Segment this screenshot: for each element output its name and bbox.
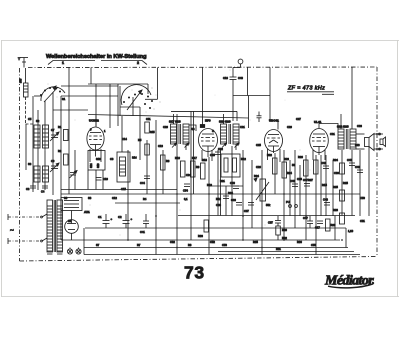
tube V3 UBC41	[265, 119, 283, 163]
resistor R18	[201, 158, 208, 179]
resistor R29	[326, 219, 336, 231]
antenna terminal T	[18, 57, 28, 68]
svg-text:S15: S15	[150, 130, 155, 134]
tube V1 UCH42	[87, 119, 104, 163]
svg-text:S1: S1	[62, 97, 66, 101]
cap C10	[96, 177, 109, 181]
diode load box R21	[220, 154, 240, 183]
cap C44	[140, 176, 150, 185]
resistor R5	[138, 122, 149, 155]
svg-text:C33: C33	[231, 198, 236, 202]
resistor R33	[198, 220, 209, 238]
svg-text:C48: C48	[347, 158, 352, 162]
terminal post C46	[223, 59, 243, 121]
cap C49	[355, 165, 363, 173]
coil box S14	[117, 152, 137, 182]
cap C47	[303, 216, 313, 228]
svg-text:PU: PU	[286, 200, 290, 204]
svg-text:S10: S10	[96, 157, 101, 161]
band switch S-I	[34, 86, 65, 102]
svg-text:Wellenbereichschalter in KW-St: Wellenbereichschalter in KW-Stellung	[46, 54, 147, 60]
volume potentiometer R34	[254, 174, 271, 207]
svg-text:R34: R34	[254, 174, 259, 178]
tube V2 EF41	[199, 119, 218, 162]
power transformer	[47, 200, 63, 254]
trimmer C5	[50, 128, 59, 141]
svg-text:C25: C25	[256, 143, 261, 147]
svg-text:R26: R26	[298, 155, 303, 159]
svg-text:S7: S7	[96, 243, 100, 247]
svg-text:C31: C31	[330, 132, 335, 136]
svg-text:S17 S18: S17 S18	[169, 120, 181, 124]
band switch S-II	[121, 85, 152, 110]
svg-text:C54: C54	[183, 189, 188, 193]
svg-text:C49: C49	[355, 165, 360, 169]
svg-text:C33: C33	[357, 124, 362, 128]
cap C45	[210, 152, 221, 157]
svg-text:C5: C5	[28, 117, 32, 121]
heater tie wires	[84, 194, 369, 255]
page scan edges	[1, 41, 399, 297]
resistor R22	[267, 153, 277, 174]
scan speckles	[45, 70, 361, 236]
main vertical feed wires from top border	[69, 67, 352, 240]
tone cap C57 stack	[268, 216, 287, 240]
svg-text:C14: C14	[122, 137, 127, 141]
svg-text:C46: C46	[230, 181, 235, 185]
svg-text:C53: C53	[222, 243, 227, 247]
svg-text:C3: C3	[26, 187, 30, 191]
resistor R17	[191, 156, 198, 177]
osc coil L4	[43, 166, 49, 182]
svg-text:73: 73	[184, 263, 205, 283]
svg-text:C16: C16	[223, 76, 228, 80]
cap C17	[315, 221, 323, 230]
IF transformer T1	[169, 120, 189, 148]
svg-text:C11: C11	[146, 117, 151, 121]
cap C42	[321, 161, 329, 169]
grid bus wires upper-left	[53, 84, 148, 160]
svg-text:R4: R4	[143, 197, 147, 201]
screen rail y=96 right half	[233, 95, 270, 97]
svg-text:C50: C50	[360, 196, 365, 200]
svg-text:C24: C24	[186, 173, 191, 177]
svg-text:R21: R21	[220, 179, 225, 183]
cap C3	[26, 182, 36, 192]
svg-text:R18: R18	[202, 158, 207, 162]
svg-text:C15: C15	[121, 187, 126, 191]
svg-text:R19: R19	[216, 197, 221, 201]
cap C48	[347, 158, 355, 166]
svg-text:R15: R15	[322, 183, 327, 187]
grid leads to tubes	[96, 114, 341, 150]
svg-text:UCH42: UCH42	[89, 119, 99, 123]
label: ZF = 473 kHz	[287, 86, 334, 95]
svg-text:S5: S5	[68, 219, 72, 223]
svg-text:EF9: EF9	[205, 119, 211, 123]
svg-text:R25: R25	[343, 181, 348, 185]
cap C46b	[230, 181, 239, 189]
svg-text:C38: C38	[216, 203, 221, 207]
svg-text:R14: R14	[287, 171, 292, 175]
svg-text:S10: S10	[96, 163, 100, 168]
svg-text:R28: R28	[333, 208, 338, 212]
svg-text:S14: S14	[132, 156, 137, 160]
svg-text:50k: 50k	[266, 203, 271, 207]
svg-text:C8: C8	[110, 157, 114, 161]
resistor chain R24	[333, 158, 345, 174]
svg-text:ZF = 473 kHz: ZF = 473 kHz	[287, 86, 325, 92]
extra value labels	[68, 125, 365, 251]
svg-text:R6: R6	[166, 159, 170, 163]
wire antenna to switch	[26, 97, 35, 124]
svg-text:C58: C58	[311, 243, 316, 247]
svg-text:R24: R24	[333, 158, 338, 162]
resistor R2	[58, 149, 68, 165]
svg-text:C41: C41	[140, 230, 145, 234]
range bracket	[48, 61, 147, 66]
svg-text:R29: R29	[331, 223, 336, 227]
bottom bus wires	[61, 190, 360, 255]
cap C47b	[303, 178, 310, 186]
svg-text:C12: C12	[112, 196, 117, 200]
aerial coil L2	[43, 125, 49, 148]
chassis dashed border	[20, 67, 378, 261]
electrolytic C1	[98, 214, 113, 228]
svg-text:C26: C26	[256, 165, 261, 169]
svg-text:S23: S23	[355, 143, 360, 147]
svg-text:C51: C51	[360, 219, 365, 223]
svg-text:S22 S23: S22 S23	[337, 125, 349, 129]
Mediator logo	[324, 274, 374, 289]
svg-text:AZ1: AZ1	[84, 210, 90, 214]
svg-text:C57: C57	[268, 221, 273, 225]
svg-text:S8: S8	[88, 196, 92, 200]
svg-text:C52: C52	[210, 240, 215, 244]
cap C40	[290, 179, 298, 187]
svg-text:C29: C29	[287, 125, 292, 129]
electrolytic C2	[118, 214, 133, 228]
cap C33	[231, 198, 242, 205]
resistor R1	[58, 125, 68, 141]
svg-text:C45: C45	[210, 153, 215, 157]
svg-text:C47: C47	[303, 178, 308, 182]
svg-text:R7: R7	[137, 243, 141, 247]
svg-text:~: ~	[10, 228, 14, 235]
svg-text:C2: C2	[118, 215, 122, 219]
svg-text:C1: C1	[98, 215, 102, 219]
osc coil L3	[28, 162, 40, 182]
cap C54	[183, 184, 190, 193]
B+ rail along tube tops	[88, 115, 249, 119]
rectifier tube AZ1	[61, 198, 90, 241]
svg-text:R25: R25	[333, 185, 338, 189]
svg-text:C62: C62	[170, 240, 175, 244]
oscillator box S24	[75, 150, 105, 190]
antenna coil 300	[19, 78, 29, 97]
svg-text:S19 S20: S19 S20	[219, 120, 231, 124]
cap C41	[140, 214, 149, 234]
svg-text:R8: R8	[188, 243, 192, 247]
svg-text:R36: R36	[297, 240, 302, 244]
svg-text:C4: C4	[41, 190, 45, 194]
aerial coil L1	[34, 125, 40, 148]
svg-text:C20: C20	[163, 125, 168, 129]
svg-text:C13: C13	[158, 144, 163, 148]
svg-text:R22: R22	[267, 153, 272, 157]
svg-text:R16: R16	[175, 156, 180, 160]
cap C43	[323, 198, 330, 206]
svg-text:C21: C21	[240, 125, 245, 129]
osc trimmer	[70, 171, 78, 179]
external speaker jack	[374, 133, 386, 150]
svg-text:C30: C30	[334, 171, 339, 175]
svg-text:C37: C37	[244, 209, 249, 213]
svg-text:R5: R5	[138, 138, 142, 142]
cap C34	[248, 203, 254, 206]
svg-text:C10: C10	[103, 177, 108, 181]
resistor R6	[161, 155, 170, 170]
output transformer S22 S23	[337, 125, 356, 150]
svg-text:R64: R64	[228, 191, 233, 195]
svg-text:R12: R12	[241, 157, 246, 161]
svg-text:R1: R1	[58, 125, 62, 129]
svg-text:C42: C42	[321, 161, 326, 165]
svg-text:R27: R27	[308, 178, 313, 182]
svg-text:C43: C43	[323, 198, 328, 202]
resistor R37 drop	[216, 186, 233, 216]
junction dots	[127, 133, 378, 248]
svg-text:C40: C40	[290, 179, 295, 183]
PU terminals	[286, 200, 297, 207]
svg-text:S3: S3	[28, 162, 32, 166]
svg-text:R23: R23	[284, 157, 289, 161]
antenna lead	[25, 68, 27, 83]
svg-text:AB: AB	[191, 127, 195, 131]
cap C4	[41, 186, 48, 194]
svg-text:R31: R31	[276, 247, 281, 251]
padder C6	[50, 159, 59, 172]
svg-text:C22: C22	[218, 147, 223, 151]
resistor chain R25	[333, 185, 345, 201]
AVC resistor R16	[175, 156, 185, 177]
IF transformer T2	[219, 120, 239, 148]
svg-text:R9: R9	[196, 165, 200, 169]
svg-text:0,1: 0,1	[184, 197, 188, 201]
svg-text:C44: C44	[140, 181, 145, 185]
resistor R23	[282, 157, 289, 178]
svg-text:C7: C7	[51, 128, 55, 132]
svg-text:R2: R2	[58, 149, 62, 153]
svg-text:1: 1	[62, 61, 64, 65]
grid resistor R27	[308, 160, 318, 182]
svg-text:1,16: 1,16	[348, 229, 354, 233]
pilot lamps	[67, 248, 81, 255]
svg-text:2: 2	[137, 61, 139, 65]
misc value labels	[28, 97, 365, 244]
resistor R26	[298, 155, 308, 176]
svg-text:C46: C46	[238, 76, 243, 80]
svg-text:C: C	[212, 129, 214, 133]
svg-text:C28: C28	[297, 177, 302, 181]
tube V4 UL41	[310, 120, 329, 160]
svg-text:S24: S24	[89, 163, 93, 168]
svg-text:R30: R30	[282, 228, 287, 232]
svg-text:R17: R17	[192, 156, 197, 160]
svg-text:UBC41: UBC41	[269, 119, 279, 123]
long mid verticals	[128, 67, 369, 254]
mains input	[8, 214, 47, 244]
svg-text:C17: C17	[315, 226, 320, 230]
svg-text:300: 300	[19, 78, 23, 83]
svg-text:C27: C27	[296, 117, 301, 121]
left coil column rails	[26, 92, 61, 240]
loudspeaker	[356, 134, 374, 151]
svg-text:S6: S6	[64, 196, 68, 200]
svg-text:R33: R33	[198, 234, 203, 238]
resistor chain R28	[333, 208, 345, 224]
svg-text:S2: S2	[36, 119, 40, 123]
svg-text:R10: R10	[207, 183, 212, 187]
svg-text:R35: R35	[253, 240, 258, 244]
svg-text:C9: C9	[51, 159, 55, 163]
